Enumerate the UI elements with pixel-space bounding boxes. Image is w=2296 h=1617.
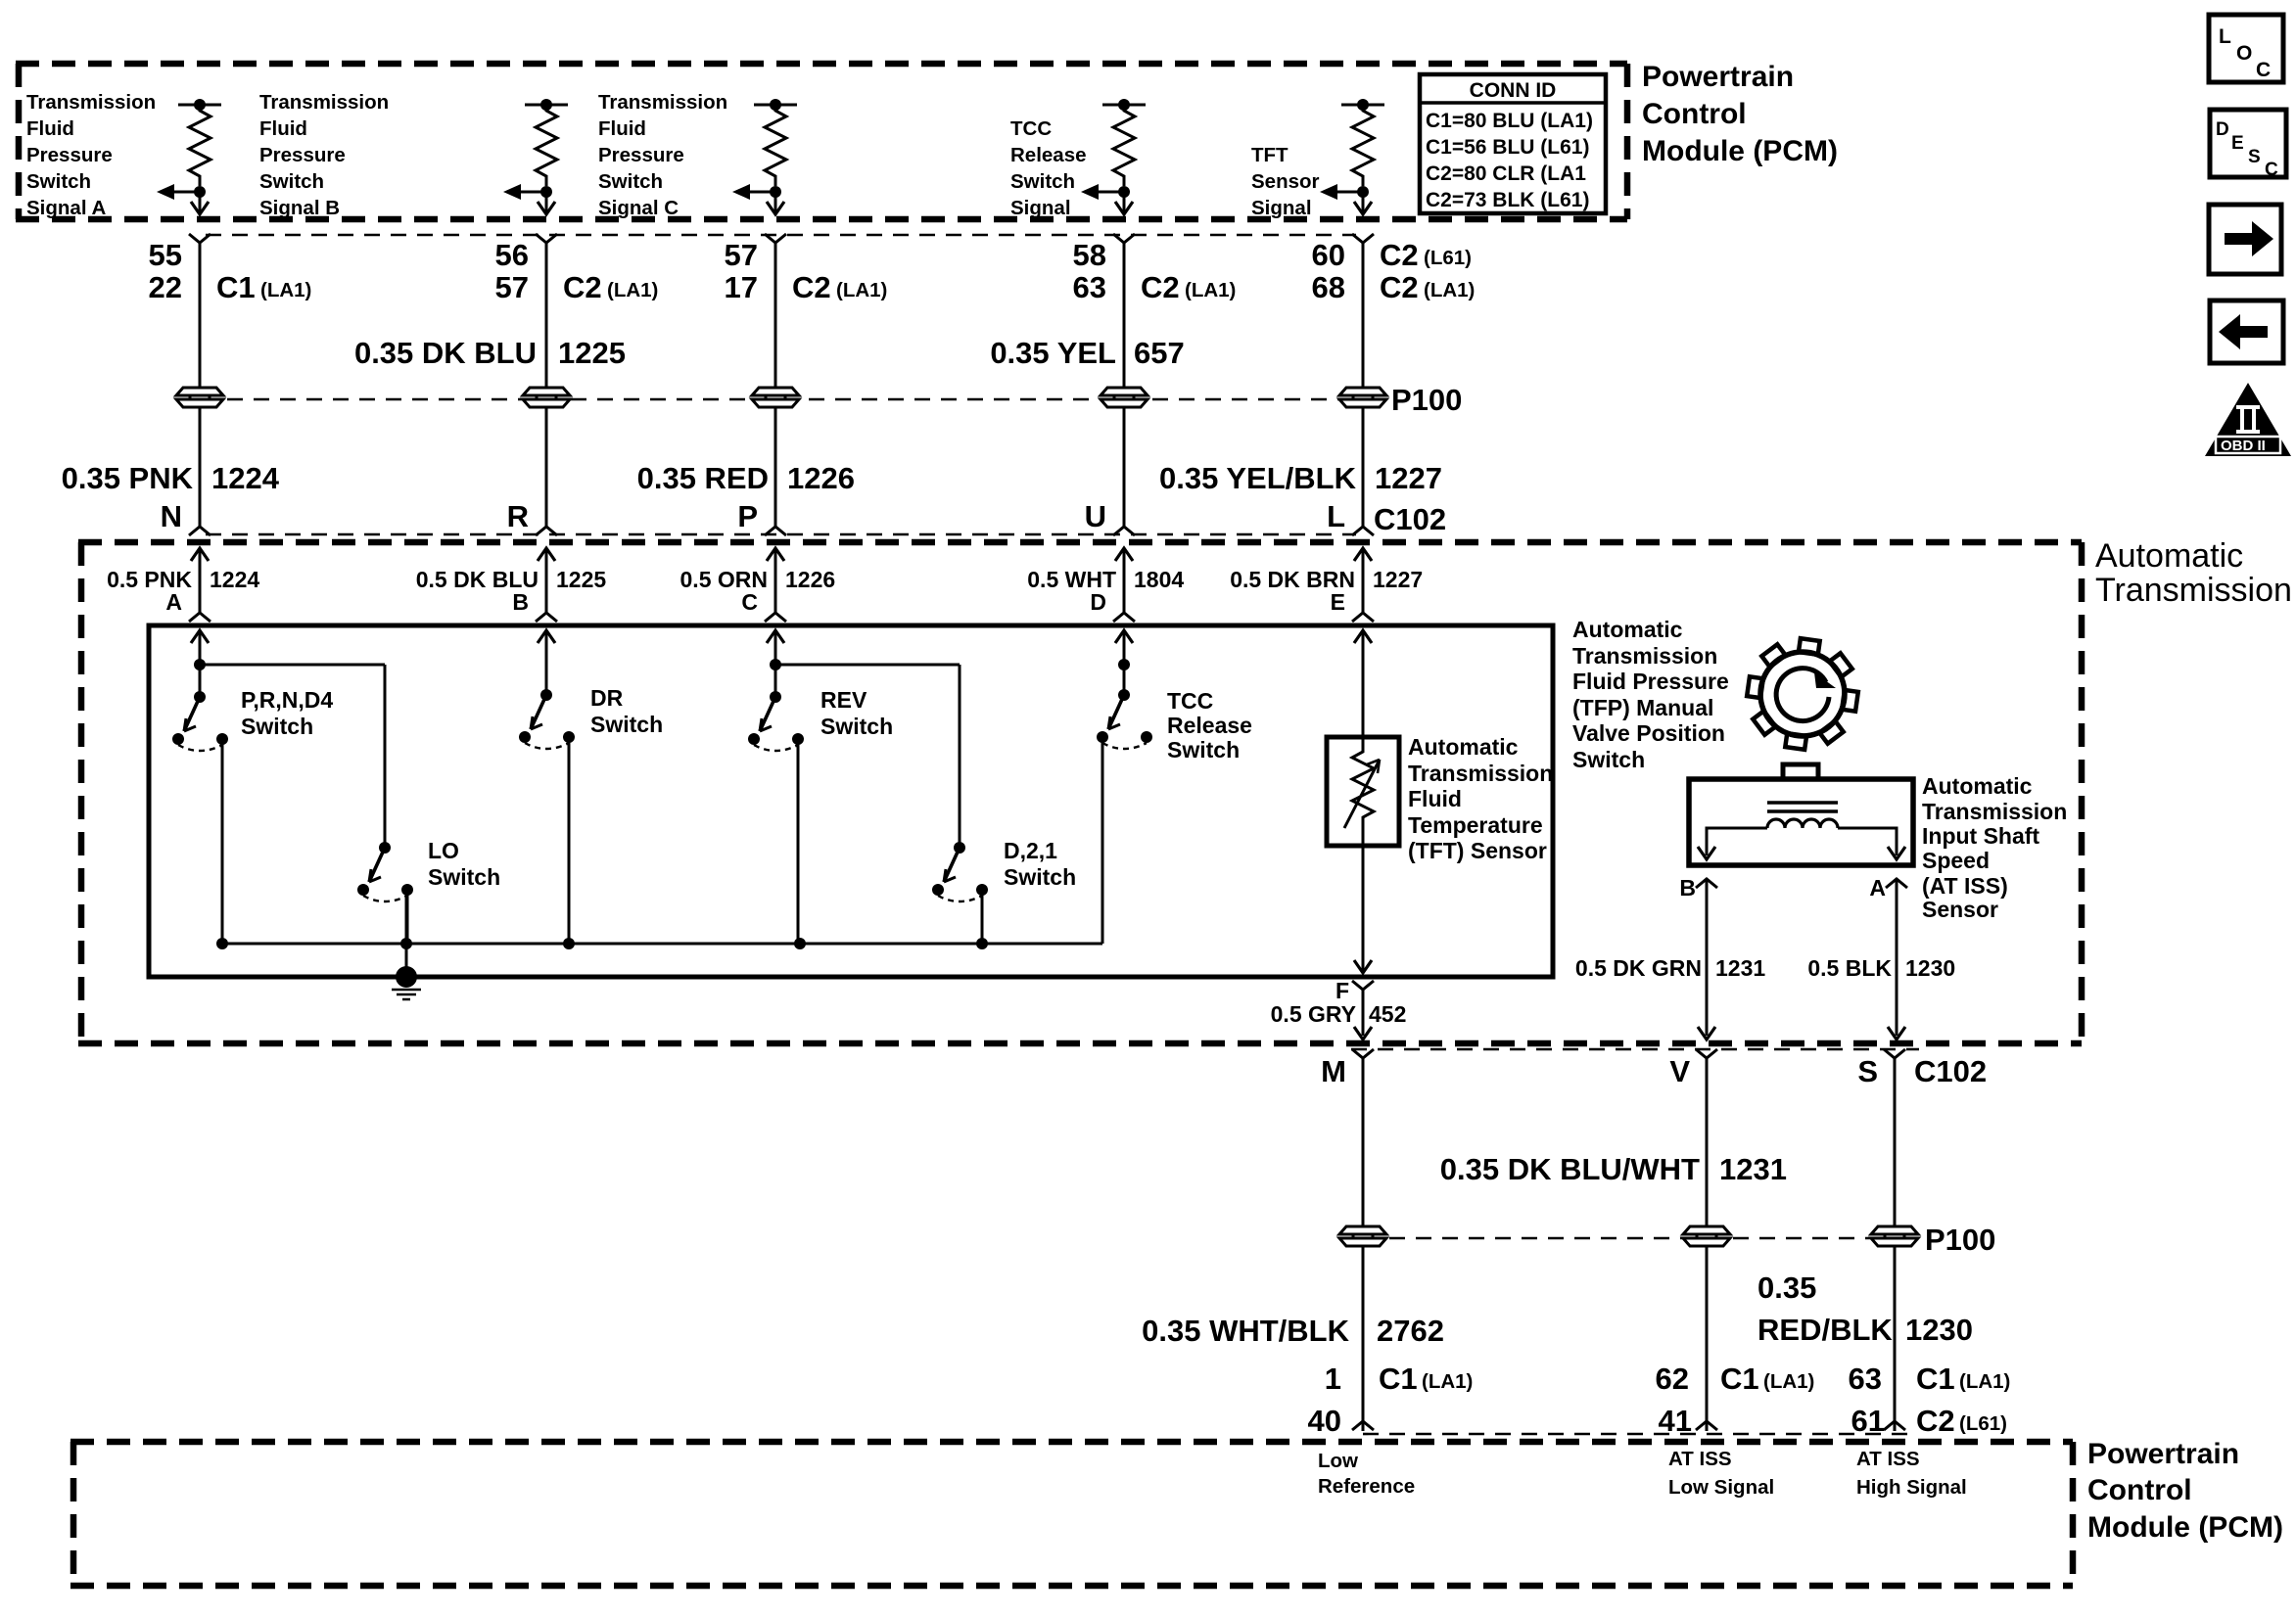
svg-text:0.35 PNK: 0.35 PNK	[62, 461, 194, 495]
label wire 0.5 DK BLU 1225 pin B	[416, 567, 607, 615]
node pin 57/17 column C (PCM connector)	[725, 234, 888, 304]
svg-text:657: 657	[1134, 336, 1185, 370]
label: AT ISS Low Signal	[1668, 1448, 1774, 1499]
svg-text:62: 62	[1656, 1362, 1689, 1396]
svg-text:Switch: Switch	[241, 714, 313, 739]
node pin 58/63 column D (PCM connector)	[1073, 234, 1237, 304]
label: Powertrain Control Module (PCM) bottom	[2087, 1438, 2283, 1544]
wire S column to P100	[1894, 1058, 1897, 1226]
svg-text:C1=80 BLU (LA1): C1=80 BLU (LA1)	[1426, 110, 1593, 132]
svg-text:C2=80 CLR (LA1: C2=80 CLR (LA1	[1426, 162, 1586, 185]
svg-text:O: O	[2236, 42, 2252, 65]
svg-text:(L61): (L61)	[1959, 1412, 2007, 1435]
svg-text:P100: P100	[1391, 383, 1462, 417]
resistor R5 TFT Sensor Signal branch	[1320, 99, 1384, 214]
ground	[392, 966, 421, 999]
label: Automatic Transmission Input Shaft Speed (AT ISS) Sensor	[1922, 773, 2067, 922]
svg-text:Release: Release	[1010, 144, 1087, 166]
node junction D (TCC)	[1118, 659, 1130, 670]
node terminal N connector C102 column A	[161, 499, 211, 535]
svg-text:0.35 DK BLU: 0.35 DK BLU	[354, 336, 537, 370]
node terminal S connector C102 (bottom)	[1857, 1049, 1905, 1088]
svg-text:LO: LO	[428, 838, 459, 863]
svg-text:Automatic: Automatic	[1922, 773, 2033, 799]
label wire 0.5 DK BRN 1227 pin E	[1230, 567, 1423, 615]
wire column B entering Automatic Transmission	[536, 548, 557, 622]
svg-text:1227: 1227	[1375, 461, 1442, 495]
svg-text:1224: 1224	[210, 567, 259, 592]
svg-text:C1=56 BLU (L61): C1=56 BLU (L61)	[1426, 136, 1589, 159]
svg-text:Switch: Switch	[1004, 864, 1076, 890]
svg-text:C2: C2	[1916, 1404, 1955, 1438]
connector P100 splice column B	[523, 388, 570, 407]
svg-text:(LA1): (LA1)	[836, 279, 887, 301]
wire column E entering Automatic Transmission	[1352, 548, 1374, 622]
svg-text:Fluid Pressure: Fluid Pressure	[1572, 669, 1729, 694]
wire column C entering Automatic Transmission	[765, 548, 786, 622]
svg-text:1225: 1225	[556, 567, 606, 592]
svg-text:Switch: Switch	[598, 170, 663, 193]
svg-text:L: L	[1327, 499, 1345, 533]
connector P100 splice (bottom) x=1392	[1339, 1226, 1386, 1246]
svg-text:22: 22	[149, 270, 182, 304]
svg-text:17: 17	[725, 270, 758, 304]
node pins 1/40 C1(LA1) column M	[1308, 1362, 1474, 1438]
svg-text:AT ISS: AT ISS	[1668, 1448, 1732, 1470]
svg-text:Module (PCM): Module (PCM)	[2087, 1511, 2283, 1544]
svg-text:Speed: Speed	[1922, 848, 1990, 873]
svg-text:C1: C1	[1379, 1362, 1418, 1396]
svg-text:C2: C2	[563, 270, 602, 304]
svg-text:Pressure: Pressure	[259, 144, 346, 166]
label: Automatic Transmission header	[2095, 537, 2292, 609]
svg-text:R: R	[507, 499, 529, 533]
node pin 60/68 column E (PCM connector)	[1312, 234, 1476, 304]
icon left-arrow box	[2210, 300, 2283, 363]
label wire 0.35 YEL/BLK 1227	[1159, 461, 1442, 495]
svg-text:C2: C2	[792, 270, 831, 304]
TFT sensor (thermistor)	[1327, 737, 1399, 846]
node pins 63/61 C1(LA1)/C2(L61) column S	[1849, 1362, 2011, 1438]
svg-text:U: U	[1085, 499, 1106, 533]
label: P,R,N,D4 Switch	[241, 687, 333, 739]
label wire 0.35 PNK 1224	[62, 461, 280, 495]
svg-text:Powertrain: Powertrain	[1642, 61, 1794, 93]
wire column D from PCM to P100 splice	[1123, 243, 1126, 388]
connector P100 splice column E	[1339, 388, 1386, 407]
svg-text:(LA1): (LA1)	[607, 279, 658, 301]
svg-text:63: 63	[1849, 1362, 1882, 1396]
svg-text:REV: REV	[820, 687, 867, 713]
svg-text:452: 452	[1369, 1001, 1406, 1027]
node terminal L connector C102 column E	[1327, 499, 1374, 535]
label wire 0.35 DK BLU 1225	[354, 336, 626, 370]
label wire 0.35 RED 1226	[637, 461, 855, 495]
svg-text:63: 63	[1073, 270, 1106, 304]
wire column B from P100 to C102	[545, 408, 548, 527]
svg-text:C: C	[2256, 59, 2271, 81]
svg-text:TCC: TCC	[1167, 688, 1213, 714]
svg-text:Switch: Switch	[428, 864, 500, 890]
svg-text:A: A	[1869, 875, 1886, 901]
svg-text:Powertrain: Powertrain	[2087, 1438, 2239, 1470]
switch TCC Release Switch	[1097, 689, 1152, 944]
connector C102 dashed line (top)	[206, 533, 1356, 536]
svg-text:C102: C102	[1374, 502, 1446, 536]
svg-text:Transmission: Transmission	[2095, 572, 2292, 609]
svg-text:E: E	[1331, 589, 1345, 615]
resistor R4 TCC Release Switch Signal branch	[1081, 99, 1146, 214]
switch D,2,1 Switch	[932, 842, 988, 944]
svg-text:68: 68	[1312, 270, 1345, 304]
wire column C from PCM to P100 splice	[774, 243, 777, 388]
svg-text:0.5 GRY: 0.5 GRY	[1271, 1001, 1356, 1027]
node pin A of AT ISS sensor	[1869, 875, 1907, 901]
svg-text:Sensor: Sensor	[1251, 170, 1320, 193]
label wire 0.35 YEL 657	[990, 336, 1184, 370]
svg-text:High Signal: High Signal	[1856, 1476, 1967, 1499]
svg-text:(L61): (L61)	[1424, 247, 1472, 269]
icon LOC box	[2209, 15, 2283, 82]
switch DR Switch	[519, 689, 575, 944]
svg-text:C1: C1	[216, 270, 256, 304]
svg-text:0.35 WHT/BLK: 0.35 WHT/BLK	[1142, 1314, 1349, 1348]
label: Powertrain Control Module (PCM) top	[1642, 61, 1838, 167]
svg-text:S: S	[2248, 147, 2261, 167]
node terminal M connector C102 (bottom)	[1321, 1049, 1374, 1088]
label: TCC Release Switch	[1167, 688, 1252, 762]
svg-text:C1: C1	[1916, 1362, 1955, 1396]
node pins 62/41 C1(LA1) column V	[1656, 1362, 1815, 1438]
svg-text:(LA1): (LA1)	[1424, 279, 1475, 301]
svg-text:57: 57	[725, 238, 758, 272]
svg-text:1227: 1227	[1373, 567, 1423, 592]
TFP manual valve position switch assembly box	[149, 625, 1553, 977]
gear icon (input shaft)	[1747, 638, 1858, 750]
label: AT ISS High Signal	[1856, 1448, 1967, 1499]
wire column B entering switch assembly	[538, 630, 555, 697]
svg-text:M: M	[1321, 1054, 1346, 1088]
svg-text:1231: 1231	[1719, 1152, 1787, 1186]
svg-text:0.35 RED: 0.35 RED	[637, 461, 769, 495]
svg-text:Switch: Switch	[26, 170, 91, 193]
wire 0.35 RED/BLK 1230	[1757, 1247, 1973, 1421]
icon OBD II triangle	[2205, 383, 2291, 456]
svg-text:Switch: Switch	[1010, 170, 1075, 193]
svg-text:C2=73 BLK (L61): C2=73 BLK (L61)	[1426, 189, 1589, 211]
node junction A branch to LO switch	[194, 659, 385, 848]
svg-text:B: B	[512, 589, 529, 615]
svg-text:1230: 1230	[1905, 955, 1955, 981]
P100 pass-through connector dashed line (bottom)	[1363, 1237, 1909, 1240]
svg-text:A: A	[165, 589, 182, 615]
svg-text:AT ISS: AT ISS	[1856, 1448, 1920, 1470]
svg-text:C2: C2	[1380, 270, 1419, 304]
svg-text:Fluid: Fluid	[259, 117, 307, 140]
connector P100 splice column C	[752, 388, 799, 407]
svg-text:Switch: Switch	[820, 714, 893, 739]
svg-text:Signal: Signal	[1251, 197, 1312, 219]
wire M column to P100	[1362, 1058, 1365, 1226]
svg-text:V: V	[1669, 1054, 1690, 1088]
svg-text:(TFP) Manual: (TFP) Manual	[1572, 695, 1713, 720]
CONN ID table	[1420, 74, 1606, 213]
svg-text:(LA1): (LA1)	[1422, 1370, 1473, 1393]
wire column C entering switch assembly	[767, 630, 784, 697]
wire column E from PCM to P100 splice	[1362, 243, 1365, 388]
node junction C branch to D,2,1 switch	[770, 659, 960, 848]
node pin B of AT ISS sensor	[1679, 875, 1717, 901]
icon DESC box	[2210, 110, 2286, 180]
label: LO Switch	[428, 838, 500, 890]
wire V column to P100	[1706, 1058, 1709, 1226]
label: Transmission Fluid Pressure Switch Signal B	[259, 91, 389, 219]
svg-text:0.35 DK BLU/WHT: 0.35 DK BLU/WHT	[1440, 1152, 1700, 1186]
svg-text:B: B	[1679, 875, 1696, 901]
svg-text:DR: DR	[590, 685, 624, 711]
Automatic Transmission dashed box	[78, 542, 2082, 1043]
wire column A entering Automatic Transmission	[189, 548, 211, 622]
label: Automatic Transmission Fluid Pressure (TFP) Manual Valve Position Switch	[1572, 617, 1729, 772]
svg-text:Low: Low	[1318, 1450, 1358, 1472]
PCM connector dashed line (bottom)	[1363, 1433, 1909, 1436]
svg-text:Control: Control	[1642, 98, 1747, 130]
svg-text:0.35 YEL/BLK: 0.35 YEL/BLK	[1159, 461, 1357, 495]
svg-text:TFT: TFT	[1251, 144, 1289, 166]
switch REV Switch	[748, 691, 804, 944]
wire LO switch output to ground	[405, 892, 408, 977]
svg-text:E: E	[2231, 133, 2244, 154]
svg-text:C: C	[2265, 160, 2278, 180]
svg-text:2762: 2762	[1377, 1314, 1444, 1348]
svg-text:Valve Position: Valve Position	[1572, 720, 1725, 746]
svg-text:57: 57	[495, 270, 529, 304]
svg-text:Sensor: Sensor	[1922, 897, 1998, 922]
wire column E from P100 to C102	[1362, 408, 1365, 527]
connector P100 splice (bottom) x=1935	[1871, 1226, 1918, 1246]
wire column A from P100 to C102	[199, 408, 202, 527]
label wire 0.5 ORN 1226 pin C	[680, 567, 836, 615]
svg-text:Automatic: Automatic	[1572, 617, 1683, 642]
svg-text:C2: C2	[1141, 270, 1180, 304]
label: DR Switch	[590, 685, 663, 737]
svg-text:Input Shaft: Input Shaft	[1922, 823, 2039, 849]
wire column C from P100 to C102	[774, 408, 777, 527]
wire 0.5 BLK 1230 (A to C102 S)	[1807, 879, 1955, 1039]
svg-text:Transmission: Transmission	[1922, 799, 2067, 824]
svg-text:0.5 DK GRN: 0.5 DK GRN	[1575, 955, 1702, 981]
resistor R1 Trans Fluid Pressure Switch Signal A branch	[157, 99, 221, 214]
svg-text:F: F	[1335, 978, 1349, 1003]
svg-text:1: 1	[1325, 1362, 1341, 1396]
svg-text:Automatic: Automatic	[2095, 537, 2243, 575]
svg-text:(LA1): (LA1)	[1763, 1370, 1814, 1393]
label: D,2,1 Switch	[1004, 838, 1076, 890]
svg-text:P100: P100	[1925, 1223, 1995, 1257]
Powertrain Control Module (PCM) bottom dashed box	[70, 1442, 2073, 1586]
label wire 0.5 PNK 1224 pin A	[107, 567, 259, 615]
svg-text:Fluid: Fluid	[598, 117, 646, 140]
svg-text:1224: 1224	[211, 461, 280, 495]
node terminal V connector C102 (bottom)	[1669, 1049, 1717, 1088]
svg-text:Automatic: Automatic	[1408, 734, 1519, 760]
svg-text:C2: C2	[1380, 238, 1419, 272]
wire 0.5 DK GRN 1231 (B to C102 V)	[1575, 879, 1765, 1039]
wire common bus to ground	[216, 938, 1102, 949]
label wire 0.35 DK BLU/WHT 1231	[1440, 1152, 1787, 1186]
svg-text:Transmission: Transmission	[259, 91, 389, 114]
resistor R2 Trans Fluid Pressure Switch Signal B branch	[503, 99, 568, 214]
svg-text:0.35: 0.35	[1757, 1270, 1816, 1305]
svg-text:Transmission: Transmission	[1572, 643, 1717, 669]
svg-text:56: 56	[495, 238, 529, 272]
AT ISS sensor (inductive pickup)	[1689, 764, 1913, 865]
svg-text:C102: C102	[1914, 1054, 1987, 1088]
svg-text:(TFT) Sensor: (TFT) Sensor	[1408, 838, 1547, 863]
wire column A entering switch assembly	[191, 630, 209, 697]
connector P100 splice column D	[1101, 388, 1148, 407]
svg-text:OBD II: OBD II	[2221, 438, 2266, 454]
svg-text:P,R,N,D4: P,R,N,D4	[241, 687, 333, 713]
label wire 0.5 WHT 1804 pin D	[1027, 567, 1184, 615]
svg-text:58: 58	[1073, 238, 1106, 272]
svg-text:(AT ISS): (AT ISS)	[1922, 873, 2008, 899]
svg-text:(LA1): (LA1)	[260, 279, 311, 301]
svg-text:Reference: Reference	[1318, 1475, 1415, 1498]
wire TFT sensor to pin F	[1354, 846, 1372, 973]
svg-text:Pressure: Pressure	[26, 144, 113, 166]
label: TFT Sensor Signal	[1251, 144, 1320, 219]
svg-text:Module (PCM): Module (PCM)	[1642, 135, 1838, 167]
Powertrain Control Module (PCM) top dashed box	[16, 64, 1627, 219]
svg-text:Release: Release	[1167, 713, 1252, 738]
svg-text:Transmission: Transmission	[26, 91, 156, 114]
svg-text:1231: 1231	[1715, 955, 1765, 981]
svg-text:D,2,1: D,2,1	[1004, 838, 1057, 863]
svg-text:Fluid: Fluid	[1408, 786, 1462, 811]
node terminal U connector C102 column D	[1085, 499, 1135, 535]
svg-text:1226: 1226	[785, 567, 835, 592]
label: TCC Release Switch Signal	[1010, 117, 1087, 219]
label: Transmission Fluid Pressure Switch Signal A	[26, 91, 156, 219]
node pin F / wire 0.5 GRY 452	[1271, 978, 1407, 1039]
connector P100 splice (bottom) x=1743	[1683, 1226, 1730, 1246]
switch LO Switch	[357, 842, 413, 944]
svg-text:C: C	[741, 589, 758, 615]
svg-text:Transmission: Transmission	[1408, 761, 1553, 786]
node terminal R connector C102 column B	[507, 499, 557, 535]
wire column A from PCM to P100 splice	[199, 243, 202, 388]
label: Low Reference	[1318, 1450, 1415, 1498]
svg-text:Signal C: Signal C	[598, 197, 679, 219]
svg-text:40: 40	[1308, 1404, 1341, 1438]
svg-text:Signal A: Signal A	[26, 197, 106, 219]
icon right-arrow box	[2209, 205, 2281, 274]
label: Transmission Fluid Pressure Switch Signal C	[598, 91, 727, 219]
svg-text:Fluid: Fluid	[26, 117, 74, 140]
connector C102 dashed line (bottom)	[1351, 1048, 1919, 1051]
P100 pass-through connector dashed line (top)	[201, 398, 1361, 401]
resistor R3 Trans Fluid Pressure Switch Signal C branch	[732, 99, 797, 214]
wire column D from P100 to C102	[1123, 408, 1126, 527]
label: REV Switch	[820, 687, 893, 739]
svg-text:C1: C1	[1720, 1362, 1759, 1396]
node terminal P connector C102 column C	[737, 499, 786, 535]
svg-text:P: P	[737, 499, 758, 533]
svg-text:L: L	[2219, 25, 2231, 48]
wire 0.35 WHT/BLK 2762	[1142, 1247, 1444, 1421]
svg-text:CONN ID: CONN ID	[1470, 79, 1557, 102]
svg-text:Temperature: Temperature	[1408, 812, 1543, 838]
svg-text:D: D	[2216, 119, 2229, 140]
svg-text:Pressure: Pressure	[598, 144, 684, 166]
wire column E entering switch assembly	[1354, 630, 1372, 737]
svg-text:1804: 1804	[1134, 567, 1184, 592]
switch P,R,N,D4 Switch	[172, 691, 228, 944]
svg-text:N: N	[161, 499, 182, 533]
wire 0.35 DK BLU/WHT lower	[1706, 1247, 1709, 1421]
svg-text:0.35 YEL: 0.35 YEL	[990, 336, 1116, 370]
svg-text:60: 60	[1312, 238, 1345, 272]
node pin 55/22 column A (PCM connector)	[149, 234, 312, 304]
svg-text:55: 55	[149, 238, 182, 272]
svg-text:Low Signal: Low Signal	[1668, 1476, 1774, 1499]
svg-text:Switch: Switch	[590, 712, 663, 737]
wire column B from PCM to P100 splice	[545, 243, 548, 388]
node pin 56/57 column B (PCM connector)	[495, 234, 659, 304]
svg-text:1226: 1226	[787, 461, 855, 495]
svg-text:(LA1): (LA1)	[1185, 279, 1236, 301]
PCM connector C1/C2 dashed line	[206, 234, 1356, 237]
svg-text:(LA1): (LA1)	[1959, 1370, 2010, 1393]
svg-text:Switch: Switch	[1167, 737, 1240, 762]
svg-text:0.5 BLK: 0.5 BLK	[1807, 955, 1892, 981]
wire column D entering Automatic Transmission	[1113, 548, 1135, 622]
svg-text:Switch: Switch	[259, 170, 324, 193]
svg-text:Control: Control	[2087, 1474, 2192, 1506]
svg-text:Switch: Switch	[1572, 747, 1645, 772]
svg-text:1230: 1230	[1905, 1313, 1973, 1347]
label: Automatic Transmission Fluid Temperature (TFT) Sensor	[1408, 734, 1553, 863]
svg-text:Transmission: Transmission	[598, 91, 727, 114]
svg-text:S: S	[1857, 1054, 1878, 1088]
svg-text:TCC: TCC	[1010, 117, 1052, 140]
svg-text:RED/BLK: RED/BLK	[1757, 1313, 1893, 1347]
svg-text:1225: 1225	[558, 336, 626, 370]
wire column D entering switch assembly	[1115, 630, 1133, 697]
connector P100 splice column A	[176, 388, 223, 407]
svg-text:D: D	[1090, 589, 1106, 615]
svg-text:Signal: Signal	[1010, 197, 1071, 219]
svg-text:Signal B: Signal B	[259, 197, 340, 219]
